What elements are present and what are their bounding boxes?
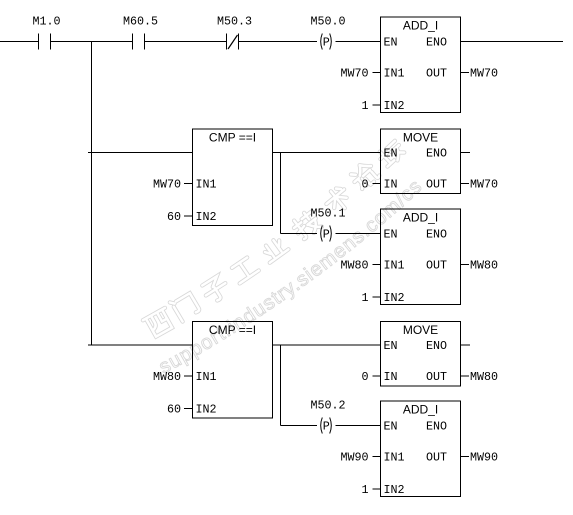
svg-text:IN2: IN2 (196, 210, 217, 224)
svg-text:0: 0 (361, 178, 368, 192)
svg-text:1: 1 (361, 291, 368, 305)
svg-text:MW80: MW80 (470, 370, 498, 384)
svg-text:IN2: IN2 (384, 99, 405, 113)
svg-text:OUT: OUT (426, 451, 447, 465)
svg-text:OUT: OUT (426, 370, 447, 384)
svg-text:MW70: MW70 (340, 67, 368, 81)
svg-text:M1.0: M1.0 (32, 15, 60, 29)
svg-text:IN1: IN1 (196, 178, 217, 192)
svg-text:IN2: IN2 (196, 403, 217, 417)
svg-text:CMP ==I: CMP ==I (209, 323, 256, 337)
svg-text:IN1: IN1 (384, 451, 405, 465)
svg-text:0: 0 (361, 370, 368, 384)
svg-text:IN2: IN2 (384, 291, 405, 305)
svg-text:IN: IN (384, 370, 398, 384)
svg-text:OUT: OUT (426, 259, 447, 273)
svg-text:P: P (323, 36, 330, 50)
svg-text:EN: EN (384, 228, 398, 242)
svg-text:CMP ==I: CMP ==I (209, 130, 256, 144)
svg-text:EN: EN (384, 36, 398, 50)
svg-text:IN1: IN1 (384, 67, 405, 81)
svg-text:60: 60 (167, 403, 181, 417)
svg-text:1: 1 (361, 483, 368, 497)
svg-text:EN: EN (384, 339, 398, 353)
svg-text:1: 1 (361, 99, 368, 113)
svg-text:P: P (323, 228, 330, 242)
svg-text:MW80: MW80 (340, 259, 368, 273)
svg-text:ENO: ENO (426, 147, 447, 161)
svg-text:EN: EN (384, 420, 398, 434)
svg-text:IN1: IN1 (384, 259, 405, 273)
svg-text:MW80: MW80 (470, 259, 498, 273)
svg-text:MW90: MW90 (470, 451, 498, 465)
svg-text:MW70: MW70 (470, 178, 498, 192)
svg-text:MOVE: MOVE (403, 323, 438, 337)
svg-text:IN1: IN1 (196, 370, 217, 384)
svg-text:ADD_I: ADD_I (403, 18, 438, 32)
svg-text:IN2: IN2 (384, 483, 405, 497)
svg-text:ADD_I: ADD_I (403, 210, 438, 224)
svg-text:M60.5: M60.5 (123, 15, 158, 29)
svg-text:IN: IN (384, 178, 398, 192)
svg-text:ENO: ENO (426, 36, 447, 50)
svg-text:MW70: MW70 (153, 178, 181, 192)
svg-text:MOVE: MOVE (403, 130, 438, 144)
svg-text:OUT: OUT (426, 67, 447, 81)
svg-text:M50.0: M50.0 (310, 15, 345, 29)
svg-text:EN: EN (384, 147, 398, 161)
svg-text:ADD_I: ADD_I (403, 402, 438, 416)
svg-text:OUT: OUT (426, 178, 447, 192)
svg-text:M50.3: M50.3 (217, 15, 252, 29)
svg-text:MW80: MW80 (153, 370, 181, 384)
svg-text:M50.1: M50.1 (310, 207, 345, 221)
svg-text:ENO: ENO (426, 228, 447, 242)
svg-text:MW90: MW90 (340, 451, 368, 465)
svg-text:M50.2: M50.2 (310, 399, 345, 413)
svg-text:ENO: ENO (426, 420, 447, 434)
svg-text:ENO: ENO (426, 339, 447, 353)
svg-text:60: 60 (167, 210, 181, 224)
svg-text:P: P (323, 420, 330, 434)
svg-text:MW70: MW70 (470, 67, 498, 81)
